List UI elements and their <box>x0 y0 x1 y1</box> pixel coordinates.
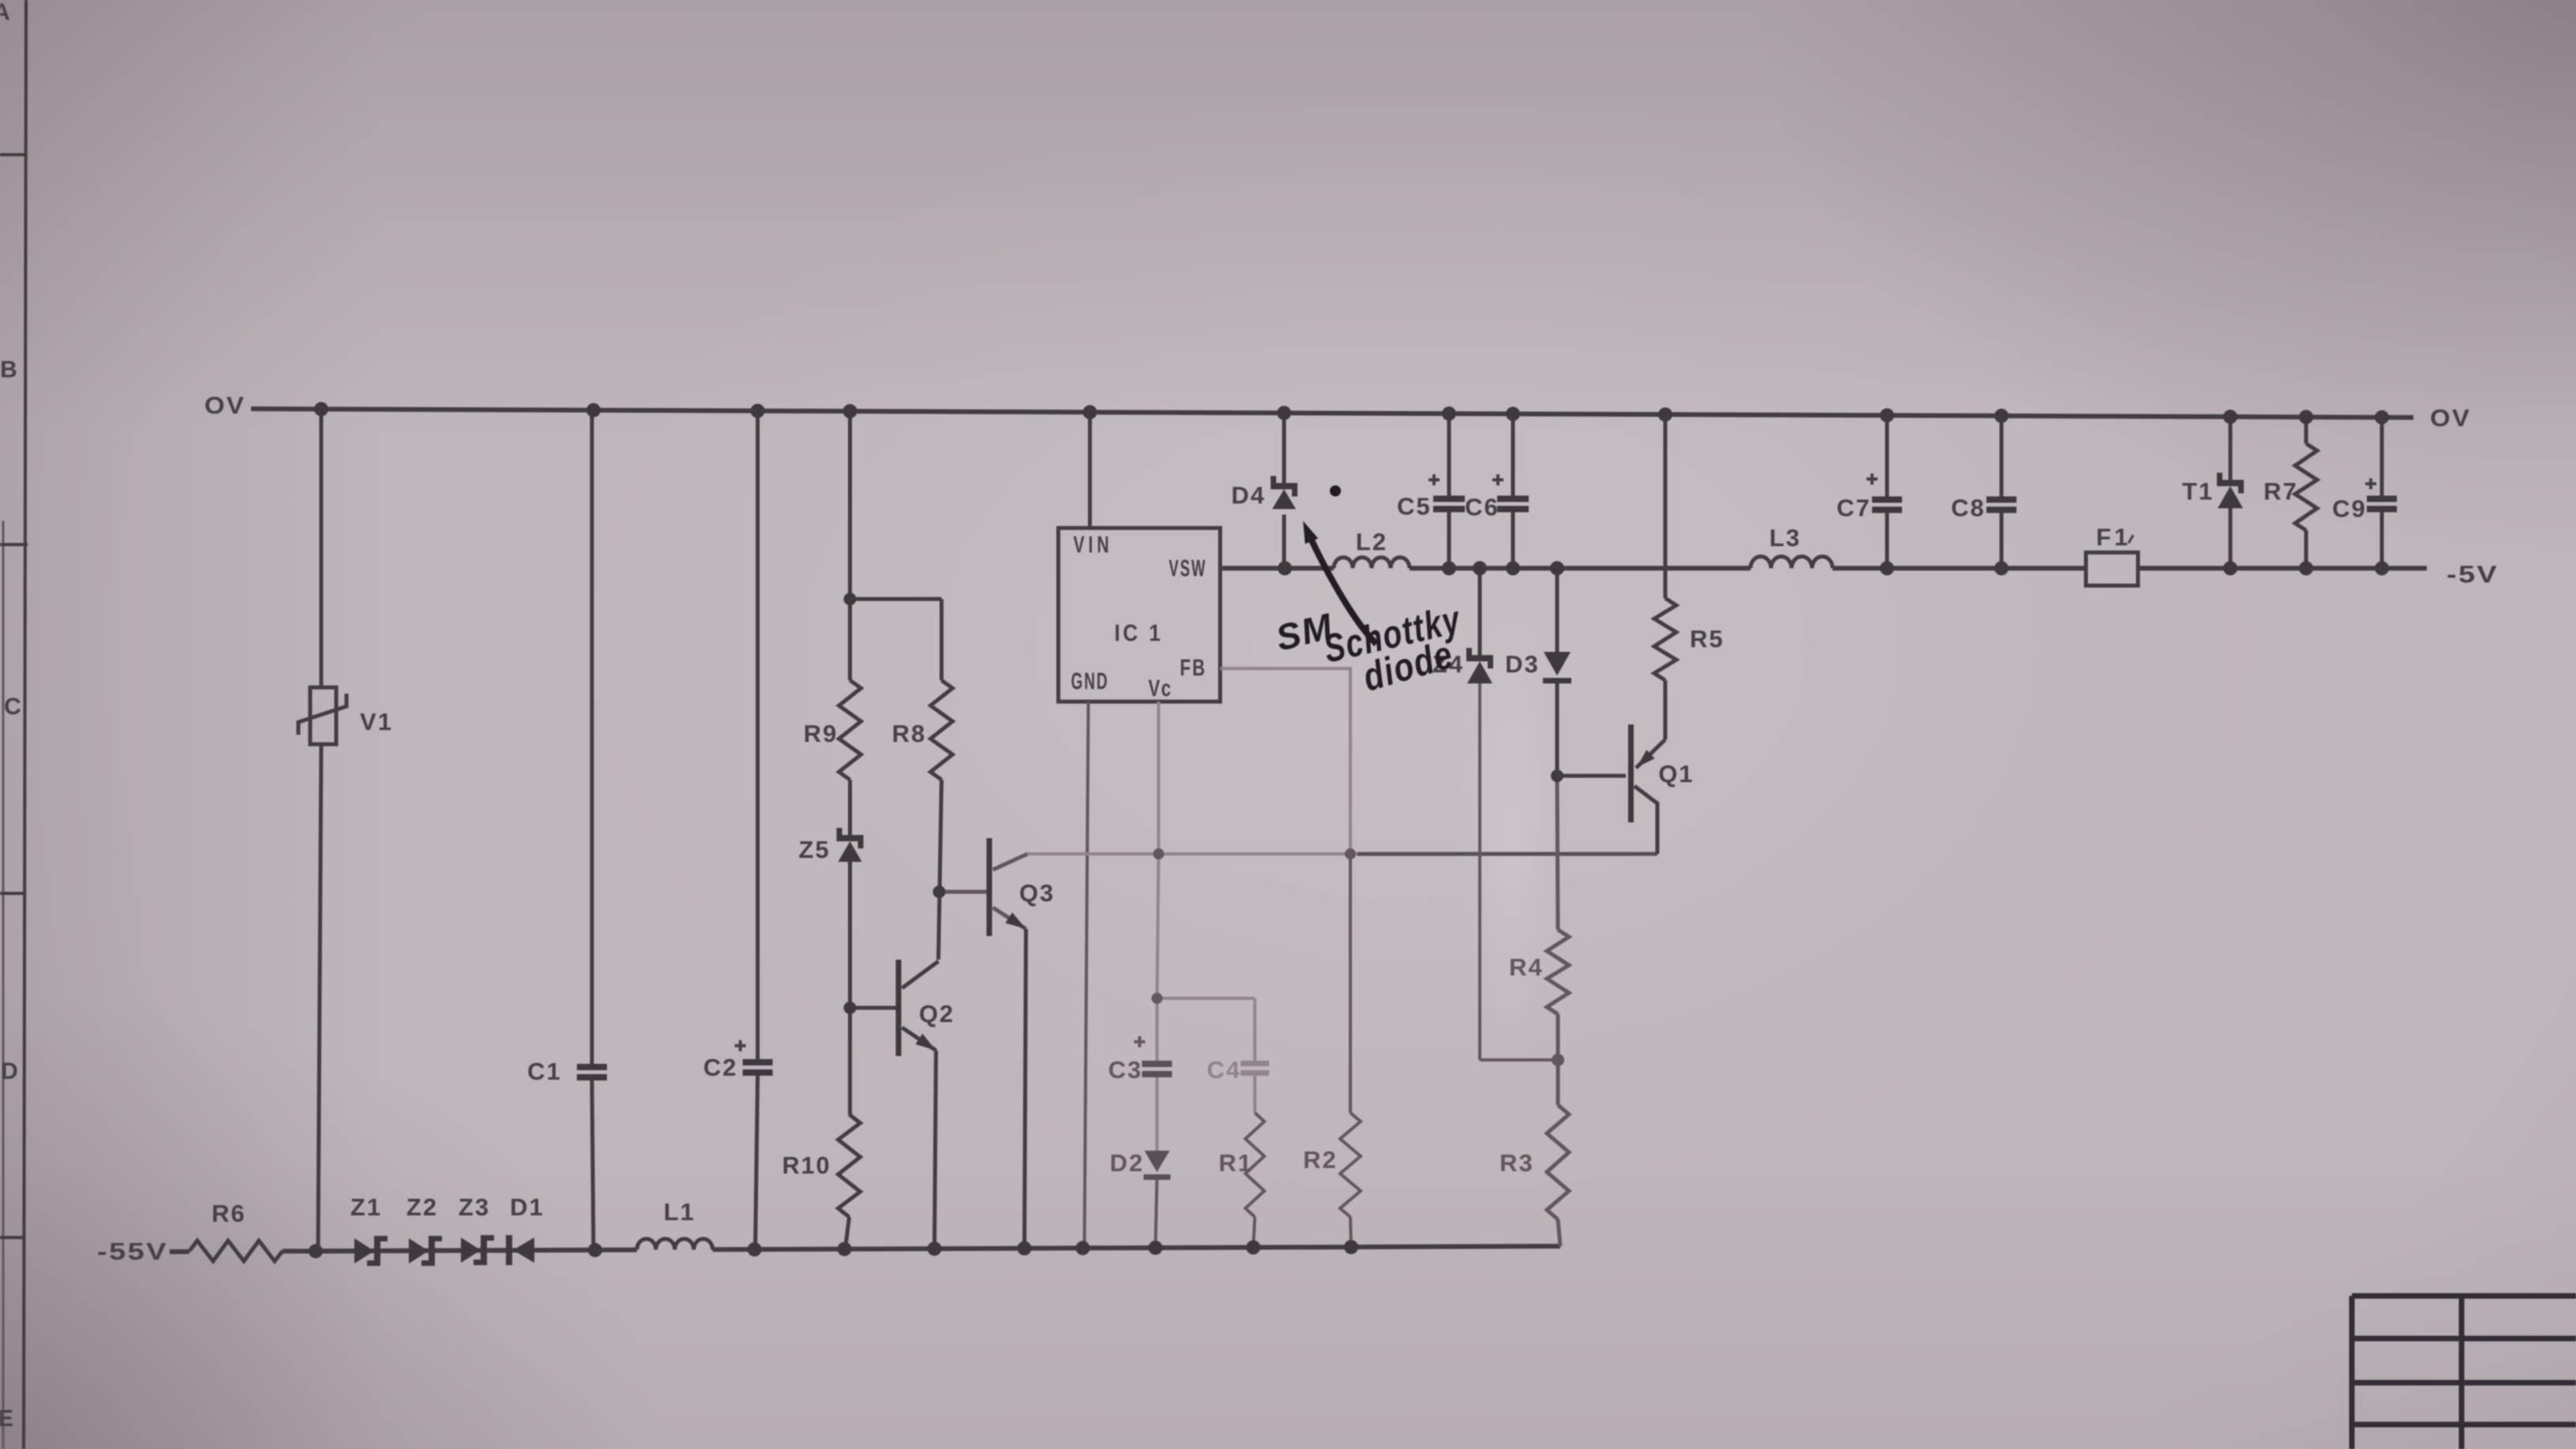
svg-text:D1: D1 <box>510 1193 545 1221</box>
svg-text:R7: R7 <box>2263 477 2298 505</box>
svg-text:C: C <box>4 694 23 720</box>
svg-text:Z3: Z3 <box>459 1193 490 1221</box>
svg-text:Z5: Z5 <box>799 836 830 863</box>
svg-text:C5: C5 <box>1397 492 1432 520</box>
svg-text:R2: R2 <box>1303 1146 1338 1174</box>
svg-text:OV: OV <box>2430 404 2471 432</box>
svg-text:R8: R8 <box>892 720 927 747</box>
svg-text:Z1: Z1 <box>350 1193 382 1221</box>
svg-text:VIN: VIN <box>1073 532 1113 558</box>
svg-text:R3: R3 <box>1500 1149 1534 1177</box>
svg-text:D3: D3 <box>1505 650 1540 678</box>
svg-text:C8: C8 <box>1951 494 1986 522</box>
svg-text:C6: C6 <box>1465 493 1500 521</box>
svg-text:R5: R5 <box>1690 625 1724 653</box>
svg-text:GND: GND <box>1071 668 1109 695</box>
svg-text:OV: OV <box>204 391 245 419</box>
svg-text:V1: V1 <box>360 708 393 736</box>
svg-text:R6: R6 <box>212 1200 246 1227</box>
svg-text:L3: L3 <box>1769 524 1801 552</box>
svg-text:L2: L2 <box>1356 528 1387 556</box>
svg-text:R10: R10 <box>782 1151 831 1179</box>
svg-text:Q2: Q2 <box>919 1000 954 1028</box>
svg-text:D: D <box>1 1058 20 1084</box>
svg-text:L1: L1 <box>664 1198 695 1226</box>
svg-text:A: A <box>0 0 12 25</box>
svg-text:Z2: Z2 <box>406 1193 438 1221</box>
svg-text:R1: R1 <box>1219 1149 1253 1177</box>
svg-text:-55V: -55V <box>97 1237 168 1265</box>
svg-text:Q3: Q3 <box>1019 879 1054 907</box>
svg-text:C3: C3 <box>1108 1056 1143 1084</box>
svg-text:Vc: Vc <box>1148 676 1172 702</box>
svg-text:C9: C9 <box>2332 495 2367 522</box>
svg-text:F1: F1 <box>2096 523 2131 551</box>
svg-text:D2: D2 <box>1110 1149 1144 1177</box>
svg-text:C4: C4 <box>1207 1056 1241 1084</box>
svg-text:D4: D4 <box>1231 481 1266 509</box>
svg-text:T1: T1 <box>2182 477 2214 505</box>
svg-text:C1: C1 <box>527 1058 562 1085</box>
svg-text:C7: C7 <box>1837 494 1871 522</box>
svg-text:FB: FB <box>1180 655 1207 681</box>
svg-text:C2: C2 <box>703 1054 738 1081</box>
svg-text:R9: R9 <box>803 720 838 747</box>
svg-text:IC 1: IC 1 <box>1114 620 1163 646</box>
svg-text:-5V: -5V <box>2447 560 2499 588</box>
svg-text:E: E <box>0 1406 15 1432</box>
svg-text:Q1: Q1 <box>1658 760 1694 788</box>
svg-text:VSW: VSW <box>1169 556 1207 582</box>
svg-text:B: B <box>0 357 19 383</box>
svg-text:R4: R4 <box>1509 953 1544 981</box>
